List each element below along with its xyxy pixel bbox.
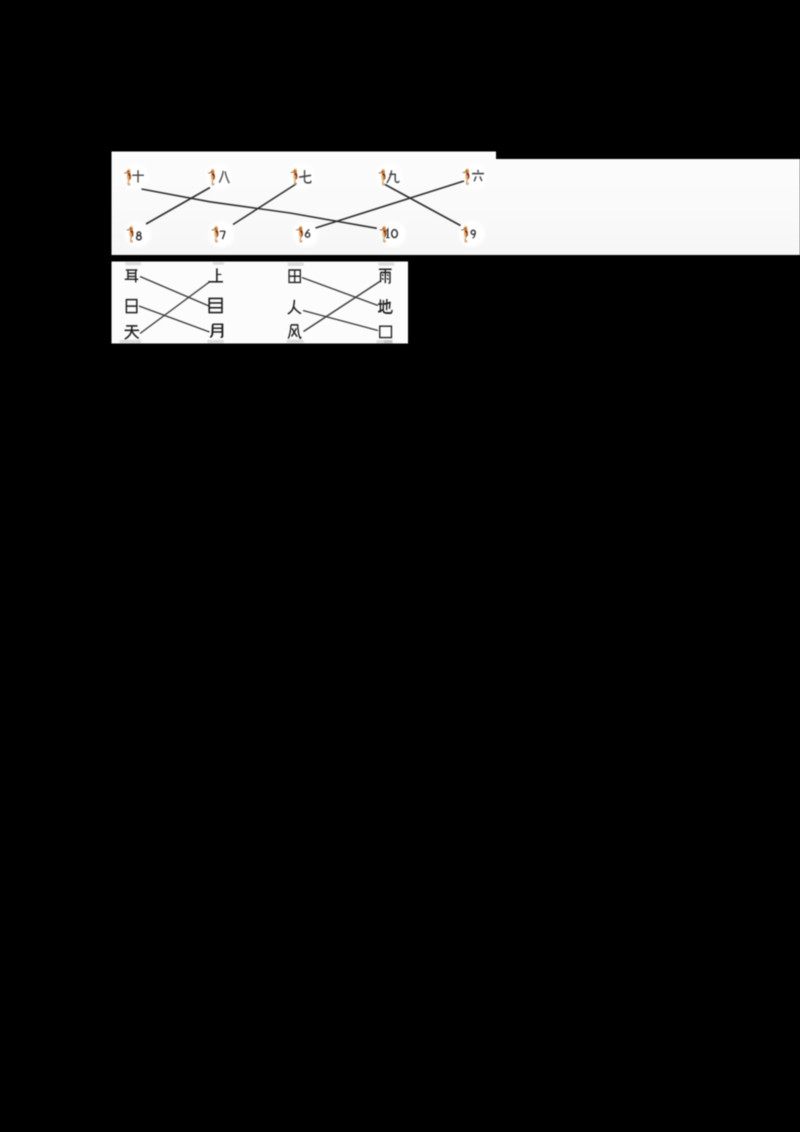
item halos panel 1 (123, 164, 487, 248)
char 月 (210, 324, 222, 337)
wire 十-10 (142, 189, 377, 228)
label 八 (219, 171, 229, 183)
label 8 (137, 232, 142, 240)
wire 风-雨 (304, 281, 381, 332)
char 目 (209, 298, 222, 312)
char 风 (288, 325, 301, 339)
char 地 (378, 299, 392, 313)
wire 耳-目 (140, 277, 209, 307)
wire 田-地 (302, 278, 378, 306)
wire 人-口 (303, 311, 378, 331)
worksheet panel 2 (bottom) (112, 262, 409, 344)
label 6 (305, 229, 309, 237)
label 10 (386, 229, 390, 237)
seahorse 5 bottom (461, 226, 468, 243)
seahorse 1 top (124, 169, 131, 186)
char 人 (288, 300, 301, 314)
char 田 (289, 270, 300, 282)
label 7 (220, 231, 225, 239)
char 耳 (125, 270, 139, 282)
char 上 (208, 268, 223, 281)
wire 天-上 (140, 282, 210, 334)
seahorse 3 top (290, 168, 297, 185)
label 十 (132, 170, 144, 182)
char 雨 (379, 269, 392, 283)
seahorse 4 bottom (379, 226, 386, 243)
seahorse 3 bottom (296, 226, 303, 243)
seahorse 1 bottom (126, 226, 133, 243)
wire 六-6 (316, 181, 465, 228)
wire 九-9 (385, 185, 461, 226)
seahorse 4 top (378, 169, 385, 186)
wire 七-7 (233, 184, 296, 225)
char 天 (125, 326, 140, 339)
label 9 (471, 230, 475, 238)
char 口 (380, 326, 392, 337)
panel 2 edge slivers (cropped neighbours) (120, 262, 395, 343)
label 七 (299, 170, 311, 183)
wire 日-月 (139, 306, 210, 332)
char 日 (126, 300, 136, 313)
label 六 (472, 170, 484, 181)
panel 1 top-right notch (496, 152, 800, 160)
seahorse 2 bottom (211, 226, 218, 243)
label 九 (387, 170, 399, 183)
worksheet panel 1 (top) (112, 152, 800, 256)
wire 八-8 (146, 188, 210, 225)
seahorse 2 top (208, 169, 215, 186)
seahorse 5 top (462, 168, 469, 185)
